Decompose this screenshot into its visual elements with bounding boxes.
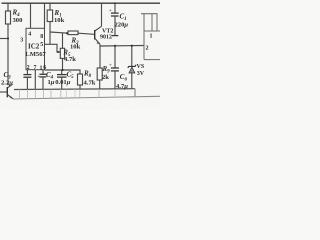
svg-text:10k: 10k (70, 44, 81, 51)
svg-text:8: 8 (40, 34, 43, 40)
svg-text:4.7k: 4.7k (84, 80, 96, 87)
svg-text:1: 1 (40, 65, 43, 71)
svg-text:2.2μ: 2.2μ (1, 80, 13, 87)
svg-text:+: + (109, 8, 112, 14)
svg-text:220μ: 220μ (115, 22, 129, 29)
svg-text:1: 1 (150, 33, 153, 39)
svg-text:4: 4 (28, 32, 31, 38)
svg-text:4.7μ: 4.7μ (116, 83, 128, 90)
svg-text:6: 6 (43, 65, 46, 71)
svg-text:5: 5 (40, 42, 43, 48)
svg-text:2: 2 (146, 45, 149, 51)
svg-text:3V: 3V (137, 71, 145, 77)
svg-text:10k: 10k (54, 17, 65, 24)
svg-text:+: + (37, 74, 40, 80)
svg-text:3: 3 (20, 38, 23, 44)
svg-text:+: + (109, 63, 112, 69)
svg-text:IC2: IC2 (28, 42, 40, 50)
svg-text:1μ: 1μ (48, 79, 55, 86)
svg-text:9012: 9012 (100, 35, 112, 41)
svg-text:2k: 2k (102, 74, 109, 81)
svg-text:7: 7 (34, 65, 37, 71)
svg-text:4.7k: 4.7k (64, 56, 76, 63)
svg-text:0.01μ: 0.01μ (55, 79, 71, 86)
svg-text:VS: VS (137, 64, 145, 70)
svg-text:2: 2 (27, 65, 30, 71)
svg-text:300: 300 (13, 17, 24, 24)
svg-text:LM567: LM567 (25, 51, 46, 58)
